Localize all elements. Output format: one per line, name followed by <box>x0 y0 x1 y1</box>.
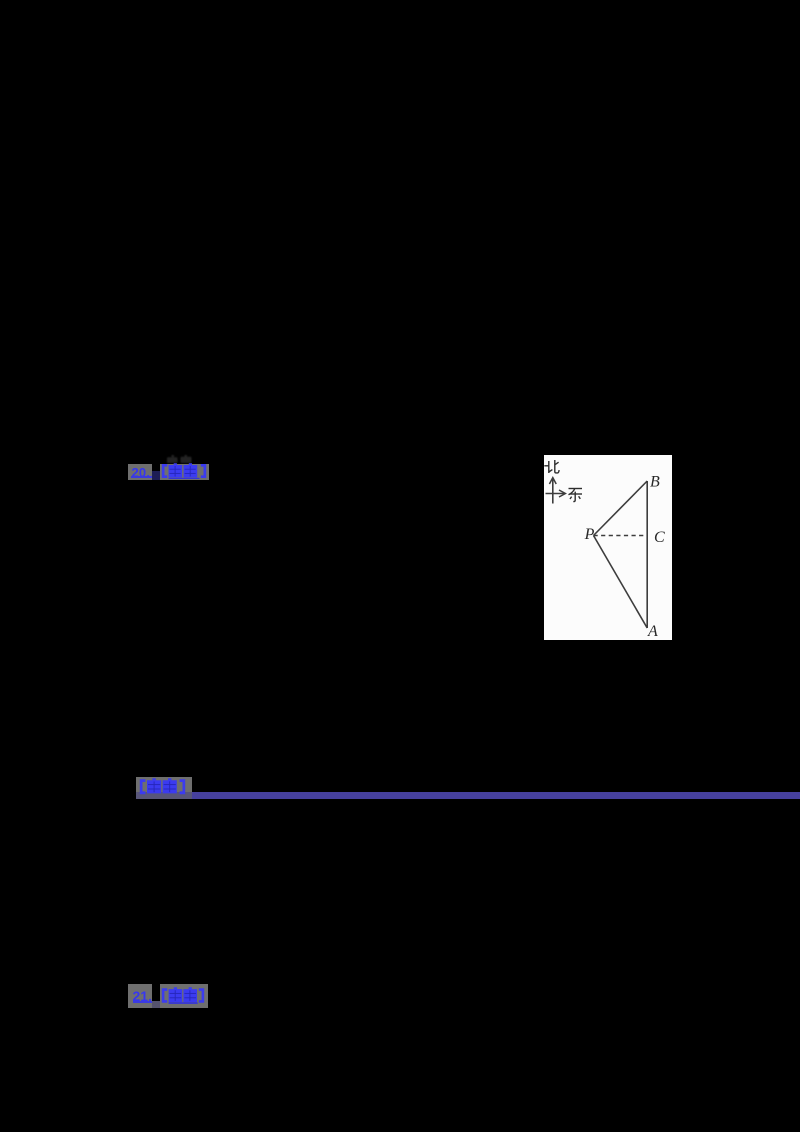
svg-text:B: B <box>650 474 660 491</box>
svg-text:A: A <box>647 623 658 640</box>
svg-text:C: C <box>654 529 665 546</box>
svg-text:P: P <box>584 526 595 543</box>
